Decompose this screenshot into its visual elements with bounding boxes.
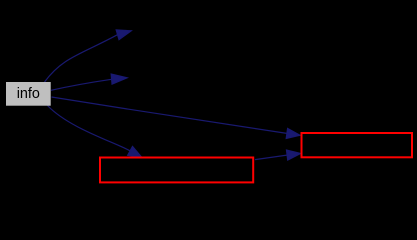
arrowhead edge info->bottombox: [128, 146, 142, 157]
arrowhead edge info->rightbox: [286, 128, 300, 138]
node bottombox (red border): [100, 158, 253, 183]
svg-text:info: info: [17, 86, 40, 102]
edge bottombox->rightbox (wire): [255, 155, 287, 160]
edge info->bottombox (wire): [48, 106, 131, 151]
arrowhead edge bottombox->rightbox: [286, 150, 301, 160]
edge info->node2 (wire): [51, 79, 112, 90]
edge info->node1 (wire): [45, 35, 118, 82]
node info (current node, grey fill): [6, 82, 51, 106]
arrowhead edge info->node1: [116, 30, 131, 40]
node rightbox (red border): [302, 133, 413, 157]
edge info->rightbox (wire): [52, 97, 287, 133]
arrowhead edge info->node2: [111, 74, 127, 84]
